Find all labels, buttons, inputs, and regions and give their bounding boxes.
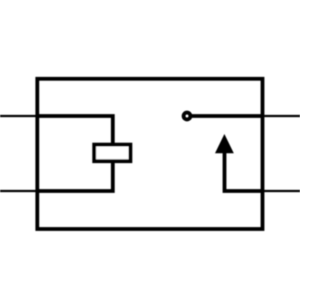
relay body outline [37,79,262,229]
wire right top lead [263,115,300,117]
wire left bottom lead [0,190,37,192]
wire contact to right edge [192,114,264,118]
wire right bottom lead [263,190,300,192]
wire switch arm (right internal) [225,150,265,191]
wire coil loop (left internal) [36,116,113,191]
node pivot circle [184,113,191,120]
coil element K1 (rectangle over vertical wire) [94,145,130,162]
arrowhead of moving contact [215,134,234,153]
wire left top lead [0,115,37,117]
